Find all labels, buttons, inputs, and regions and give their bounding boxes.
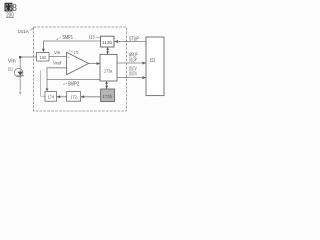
leader SMP2 (dashes) xyxy=(63,83,67,85)
svg-text:151A: 151A xyxy=(18,29,30,34)
block 174 xyxy=(45,92,57,102)
svg-text:173b: 173b xyxy=(102,94,112,99)
current source 151 xyxy=(14,68,23,77)
wire Vin to 162 xyxy=(21,56,37,58)
wire Vref (comparator - input) xyxy=(47,68,67,89)
leader 115 xyxy=(96,36,101,38)
wire SMP1 (from 113b to 162) xyxy=(43,41,100,49)
wire 174 left edge (faint) xyxy=(41,71,45,97)
arrow (current direction, faded) xyxy=(19,92,22,96)
svg-text:Vin: Vin xyxy=(54,50,61,55)
connector 173a-173b (double arrow) xyxy=(105,81,108,89)
wire input down to current source xyxy=(19,58,21,91)
svg-text:SLOP: SLOP xyxy=(129,58,137,64)
arrow into 174 top xyxy=(46,88,49,91)
dashed box 151A xyxy=(34,27,127,111)
arrow into 174 xyxy=(57,95,61,98)
svg-text:+: + xyxy=(68,56,70,60)
arrow into 172 xyxy=(81,95,85,98)
wire 173b to 172 xyxy=(81,96,101,98)
arrow into 153 (upper) xyxy=(143,62,147,65)
arrow into 153 (lower) xyxy=(143,76,147,79)
svg-text:174: 174 xyxy=(48,94,55,99)
wire WRUP/SLOP (173a to 153) xyxy=(117,62,146,64)
wire comparator output to 173a xyxy=(89,63,100,65)
svg-text:113b: 113b xyxy=(102,40,113,45)
svg-text:172: 172 xyxy=(70,94,77,99)
connector 113b-173a (double arrow) xyxy=(106,47,109,54)
wire 162 to comparator + xyxy=(49,56,67,58)
svg-text:Vref: Vref xyxy=(53,60,62,65)
node (input junction dot) xyxy=(19,56,22,59)
svg-text:173a: 173a xyxy=(104,69,113,74)
svg-text:STUP: STUP xyxy=(129,37,139,43)
block 162 xyxy=(37,52,49,61)
svg-text:153: 153 xyxy=(150,58,156,64)
svg-text:SMP1: SMP1 xyxy=(62,35,73,41)
svg-text:Vin: Vin xyxy=(8,59,16,65)
leader 171 xyxy=(69,51,73,52)
arrow into 173a xyxy=(97,62,101,65)
wire OUTV/OUTN (173a to 153) xyxy=(117,77,146,79)
arrow into 162 top xyxy=(42,49,45,53)
block 173b (shaded) xyxy=(101,89,115,102)
op-amp 171 (comparator) xyxy=(67,52,89,74)
svg-text:SMP2: SMP2 xyxy=(68,82,80,88)
block 172 xyxy=(67,92,81,102)
leader SMP1 (dashes) xyxy=(57,38,61,40)
svg-text:OUTN: OUTN xyxy=(129,72,137,78)
block 153 xyxy=(146,37,164,96)
figure title 図8 xyxy=(5,3,12,11)
svg-text:151: 151 xyxy=(8,67,14,72)
leader 151A xyxy=(30,28,34,31)
svg-text:115: 115 xyxy=(89,34,95,39)
wire SMP2 (173a to 174) xyxy=(47,78,100,80)
svg-text:162: 162 xyxy=(39,55,46,60)
wire 172 to 174 xyxy=(57,96,67,98)
wire STUP (153 to 113b) xyxy=(114,41,146,43)
arrow into 113b xyxy=(114,40,118,43)
block 173a xyxy=(100,54,117,81)
svg-text:171: 171 xyxy=(74,50,79,55)
block 113b xyxy=(101,36,114,47)
